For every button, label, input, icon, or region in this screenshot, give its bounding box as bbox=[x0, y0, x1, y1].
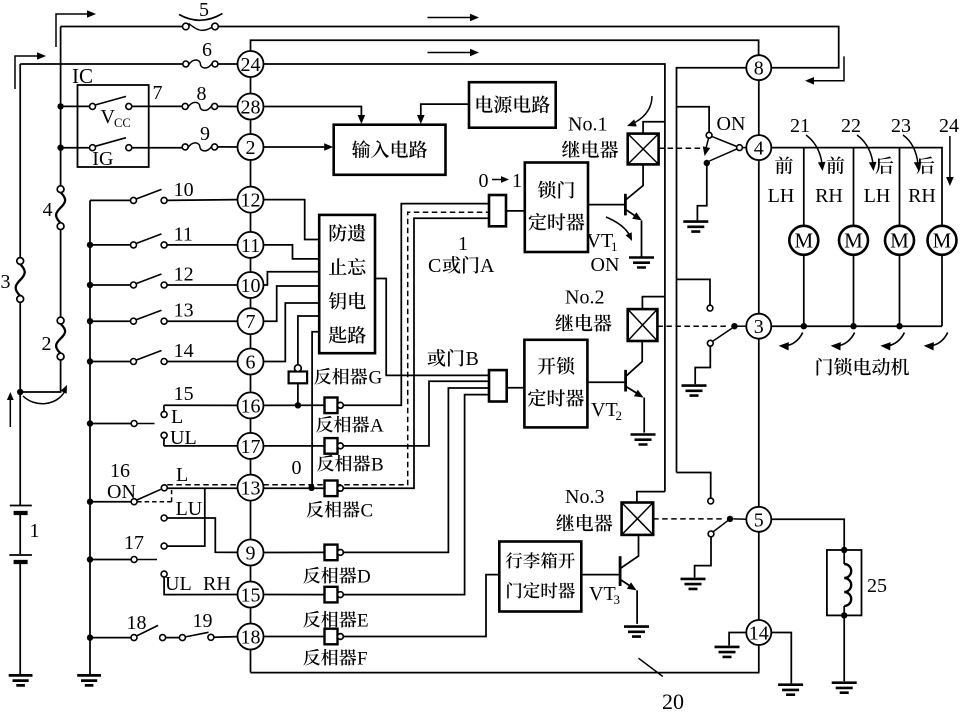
svg-text:18: 18 bbox=[241, 627, 261, 649]
svg-text:16: 16 bbox=[241, 395, 261, 417]
inductor 25 bbox=[827, 550, 862, 615]
box: unlock timer 开锁定时器 bbox=[524, 340, 587, 428]
inverter G bbox=[298, 316, 319, 365]
unit 20 left edge segments bbox=[250, 77, 252, 94]
svg-text:RH: RH bbox=[908, 185, 936, 207]
inverter F bbox=[325, 629, 338, 645]
terminal 9 bbox=[238, 540, 264, 566]
switch row 8 bbox=[182, 103, 188, 109]
terminal 13 bbox=[238, 475, 264, 501]
inverter A output to OR gate A bbox=[343, 204, 489, 406]
svg-text:17: 17 bbox=[124, 532, 144, 554]
svg-text:19: 19 bbox=[193, 610, 213, 632]
svg-text:ON: ON bbox=[591, 254, 620, 276]
terminal 7 bbox=[238, 308, 264, 334]
svg-text:10: 10 bbox=[241, 275, 261, 297]
svg-text:5: 5 bbox=[199, 0, 209, 21]
svg-text:2: 2 bbox=[616, 408, 623, 423]
box: input circuit 输入电路 bbox=[334, 125, 446, 175]
terminal 14 bbox=[746, 620, 771, 645]
svg-text:M: M bbox=[794, 229, 813, 253]
wire 8 to contact bus bbox=[677, 68, 747, 473]
svg-text:10: 10 bbox=[174, 179, 194, 201]
box: lock timer 锁门定时器 bbox=[525, 163, 588, 253]
svg-text:7: 7 bbox=[153, 82, 163, 104]
svg-text:24: 24 bbox=[939, 115, 959, 137]
wire 2 to input box bbox=[264, 146, 328, 148]
contact 3 feed bbox=[677, 473, 711, 499]
switch row 9 bbox=[182, 144, 188, 150]
svg-text:LU: LU bbox=[176, 498, 203, 520]
wire 28 to input box bbox=[264, 107, 362, 119]
relay 1 dashed link bbox=[659, 147, 703, 149]
svg-text:17: 17 bbox=[241, 436, 261, 458]
switch Vcc bbox=[62, 105, 90, 107]
terminal 16 wire to inverter A bbox=[264, 404, 325, 406]
terminal 8 bbox=[746, 55, 771, 80]
wire terminal 5 to inductor bbox=[771, 519, 844, 548]
switch common bus bbox=[89, 200, 91, 676]
svg-text:1: 1 bbox=[611, 239, 618, 254]
svg-text:11: 11 bbox=[174, 223, 193, 245]
svg-text:12: 12 bbox=[241, 190, 261, 212]
svg-text:15: 15 bbox=[174, 383, 194, 405]
terminal 18 wire to inverter F bbox=[264, 636, 325, 638]
switch IG bbox=[62, 147, 90, 149]
fuse 4 bbox=[57, 186, 64, 193]
VT1 bbox=[588, 204, 624, 206]
svg-text:M: M bbox=[933, 229, 952, 253]
terminal 14 left ground bbox=[729, 633, 747, 646]
svg-text:21: 21 bbox=[790, 115, 810, 137]
svg-text:3: 3 bbox=[1, 271, 11, 293]
inductor ground bbox=[843, 615, 845, 681]
relay 3 coil bbox=[622, 503, 654, 535]
13-row to terminal 9 path: branch down bbox=[167, 488, 205, 546]
svg-text:1: 1 bbox=[458, 233, 468, 255]
terminal 17 bbox=[238, 433, 264, 459]
label door lock motors bbox=[817, 358, 909, 376]
motor columns bbox=[803, 148, 805, 226]
wire and dashed to terminal 13 bbox=[167, 487, 237, 489]
svg-text:B: B bbox=[466, 348, 479, 370]
svg-text:A: A bbox=[480, 255, 495, 277]
motor feed top wire from terminal 4 bbox=[771, 148, 942, 226]
svg-text:UL: UL bbox=[165, 573, 192, 595]
svg-text:VT: VT bbox=[589, 583, 616, 605]
inverter E bbox=[325, 587, 338, 603]
terminal 13 wire to inverter C bbox=[263, 487, 324, 489]
svg-text:IG: IG bbox=[92, 148, 113, 170]
wire power box to input box bbox=[421, 104, 469, 118]
svg-text:No.3: No.3 bbox=[565, 486, 604, 508]
labels 前/后 LH/RH bbox=[775, 156, 793, 174]
svg-text:C: C bbox=[428, 255, 441, 277]
terminal 17 wire to inverter B bbox=[264, 445, 325, 447]
dashed signal path 13 to OR gate A bbox=[263, 212, 489, 485]
wire: 13-row signal into key-forget box bbox=[312, 332, 319, 488]
OR gate A bbox=[489, 195, 506, 226]
svg-text:3: 3 bbox=[754, 316, 764, 338]
svg-text:F: F bbox=[357, 649, 368, 670]
svg-text:6: 6 bbox=[246, 352, 256, 374]
relay 1 coil bbox=[628, 134, 659, 165]
top-right bend arrow (annotation) bbox=[813, 56, 844, 80]
terminal 14 right ground bbox=[772, 633, 792, 684]
svg-text:E: E bbox=[357, 611, 369, 632]
svg-text:2: 2 bbox=[246, 137, 256, 159]
contact 3 ground bbox=[695, 537, 711, 578]
wire 24 to coil bus bbox=[264, 64, 665, 492]
svg-text:0: 0 bbox=[479, 170, 489, 192]
terminal 24 bbox=[238, 51, 264, 77]
svg-text:4: 4 bbox=[43, 199, 53, 221]
motor return bottom wire to terminal 3 bbox=[771, 325, 942, 327]
svg-text:B: B bbox=[371, 455, 384, 476]
terminal 9 wire to inverter D bbox=[264, 551, 325, 553]
terminal 15 bbox=[238, 582, 264, 608]
contact 1 bbox=[706, 132, 712, 138]
unit 20 bottom edge bbox=[251, 672, 760, 674]
swing arrows (annotation) bbox=[785, 333, 803, 346]
svg-text:7: 7 bbox=[246, 311, 256, 333]
contact 1 ground bbox=[697, 166, 706, 220]
svg-text:A: A bbox=[370, 416, 384, 437]
svg-text:VT: VT bbox=[587, 230, 614, 252]
current dir arrows top (annotation) bbox=[428, 17, 471, 19]
svg-text:G: G bbox=[369, 368, 383, 389]
ignition feed vertical (to switch 5 / IC) bbox=[20, 360, 60, 393]
svg-text:RH: RH bbox=[203, 573, 231, 595]
svg-text:VT: VT bbox=[591, 399, 618, 421]
label 20 with leader bbox=[639, 658, 663, 676]
svg-text:14: 14 bbox=[174, 340, 194, 362]
contact 2 ground bbox=[695, 346, 710, 384]
ground battery bbox=[9, 675, 33, 685]
terminal 5 bbox=[746, 507, 771, 532]
battery 1 bbox=[9, 506, 32, 556]
svg-text:15: 15 bbox=[241, 585, 261, 607]
svg-text:9: 9 bbox=[246, 543, 256, 565]
terminal 18 bbox=[238, 624, 264, 650]
svg-text:5: 5 bbox=[754, 509, 764, 531]
svg-text:LH: LH bbox=[768, 185, 795, 207]
fuse 2 bbox=[57, 317, 64, 324]
svg-text:No.2: No.2 bbox=[565, 287, 604, 309]
svg-text:6: 6 bbox=[202, 39, 212, 61]
battery current arrows (annotation) bbox=[9, 397, 11, 427]
terminal 28 bbox=[238, 94, 264, 120]
inverter D bbox=[325, 545, 338, 561]
terminal 10 bbox=[238, 272, 264, 298]
svg-text:8: 8 bbox=[197, 83, 207, 105]
fuse row 6 bbox=[20, 63, 183, 65]
svg-text:3: 3 bbox=[614, 592, 621, 607]
svg-text:9: 9 bbox=[200, 123, 210, 145]
wires terminals to key-forget box bbox=[264, 200, 320, 240]
unit 20 outline: top edge bbox=[251, 40, 759, 55]
svg-text:D: D bbox=[357, 567, 371, 588]
terminal 11 bbox=[238, 232, 264, 258]
svg-text:18: 18 bbox=[127, 612, 147, 634]
svg-text:L: L bbox=[171, 406, 183, 428]
terminal 12 bbox=[238, 187, 264, 213]
OR gate B inputs bbox=[375, 279, 489, 376]
relay 2 dashed link bbox=[657, 325, 728, 327]
svg-text:2: 2 bbox=[42, 333, 52, 355]
unit 20 right edge segments bbox=[758, 80, 760, 135]
motors M x4 bbox=[789, 226, 818, 255]
IC box bbox=[78, 85, 149, 167]
svg-text:20: 20 bbox=[662, 689, 684, 714]
terminal 6 bbox=[238, 349, 264, 375]
svg-text:22: 22 bbox=[841, 115, 861, 137]
svg-text:CC: CC bbox=[114, 116, 131, 130]
top-left bend arrows (annotation) bbox=[56, 14, 88, 47]
svg-text:23: 23 bbox=[891, 115, 911, 137]
contact 3 bbox=[708, 498, 714, 504]
inverter C bbox=[325, 481, 338, 497]
svg-text:13: 13 bbox=[174, 300, 194, 322]
VT1 current arrow (annotation) bbox=[606, 217, 630, 236]
switch rows 10-14 bbox=[90, 199, 131, 201]
svg-text:RH: RH bbox=[815, 185, 843, 207]
terminal 16 bbox=[238, 392, 264, 418]
terminal 2 bbox=[238, 134, 264, 160]
VT3 bbox=[581, 574, 619, 576]
svg-text:28: 28 bbox=[241, 97, 261, 119]
inverter A bbox=[325, 398, 338, 414]
battery feed line (left vertical) bbox=[19, 64, 21, 258]
VT2 bbox=[587, 381, 624, 383]
box: trunk door timer 行李箱开门定时器 bbox=[499, 542, 581, 612]
contact 1 feed bbox=[677, 107, 710, 133]
inverter B bbox=[325, 438, 338, 454]
svg-text:IC: IC bbox=[72, 64, 93, 88]
svg-text:L: L bbox=[176, 464, 188, 486]
svg-text:No.1: No.1 bbox=[568, 114, 607, 136]
contact 2 feed bbox=[677, 279, 711, 305]
terminal 3 bbox=[746, 314, 771, 339]
inverter C output to OR gate A bbox=[343, 218, 489, 488]
OR gate B bbox=[489, 370, 507, 401]
breaker row 5 bbox=[61, 26, 183, 28]
box: power circuit 电源电路 bbox=[469, 82, 556, 128]
box: key-forget prevention circuit bbox=[319, 215, 375, 353]
svg-text:1: 1 bbox=[512, 170, 522, 192]
svg-text:12: 12 bbox=[174, 264, 194, 286]
svg-text:ON: ON bbox=[717, 113, 746, 135]
L/UL selector common bbox=[90, 423, 131, 425]
terminal 15 wire to inverter E bbox=[264, 594, 325, 596]
svg-text:0: 0 bbox=[292, 457, 302, 479]
svg-text:M: M bbox=[844, 229, 863, 253]
svg-text:14: 14 bbox=[749, 623, 769, 645]
svg-text:1: 1 bbox=[30, 520, 40, 542]
svg-text:16: 16 bbox=[110, 460, 130, 482]
svg-text:13: 13 bbox=[241, 478, 261, 500]
contact 2 bbox=[707, 305, 713, 311]
svg-text:25: 25 bbox=[867, 575, 887, 597]
switch 16 bbox=[90, 501, 131, 503]
svg-text:LH: LH bbox=[864, 185, 891, 207]
relay 2 coil bbox=[628, 309, 658, 341]
svg-text:8: 8 bbox=[754, 58, 764, 80]
svg-text:11: 11 bbox=[241, 235, 260, 257]
relay 3 dashed link bbox=[653, 518, 724, 520]
svg-text:C: C bbox=[361, 501, 374, 522]
svg-text:24: 24 bbox=[241, 54, 261, 76]
relay 1 annotation arrow bbox=[634, 96, 652, 123]
svg-text:M: M bbox=[890, 229, 909, 253]
terminal 4 bbox=[746, 135, 771, 160]
svg-text:4: 4 bbox=[754, 138, 764, 160]
inverter F output to trunk timer bbox=[343, 575, 499, 637]
fuse 3 bbox=[17, 258, 24, 265]
